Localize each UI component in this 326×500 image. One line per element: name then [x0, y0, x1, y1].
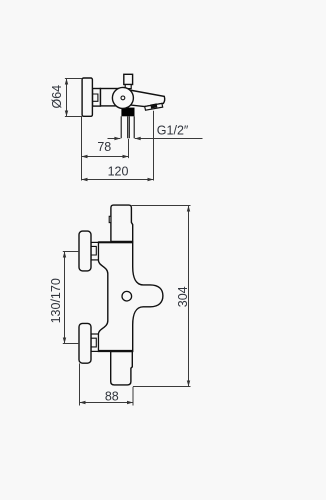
svg-text:304: 304 [176, 286, 190, 307]
svg-text:88: 88 [105, 389, 119, 403]
svg-text:G1/2″: G1/2″ [157, 123, 189, 137]
svg-text:120: 120 [108, 164, 129, 178]
svg-text:78: 78 [97, 140, 111, 154]
svg-text:130/170: 130/170 [49, 278, 63, 323]
svg-text:Ø64: Ø64 [50, 85, 64, 109]
